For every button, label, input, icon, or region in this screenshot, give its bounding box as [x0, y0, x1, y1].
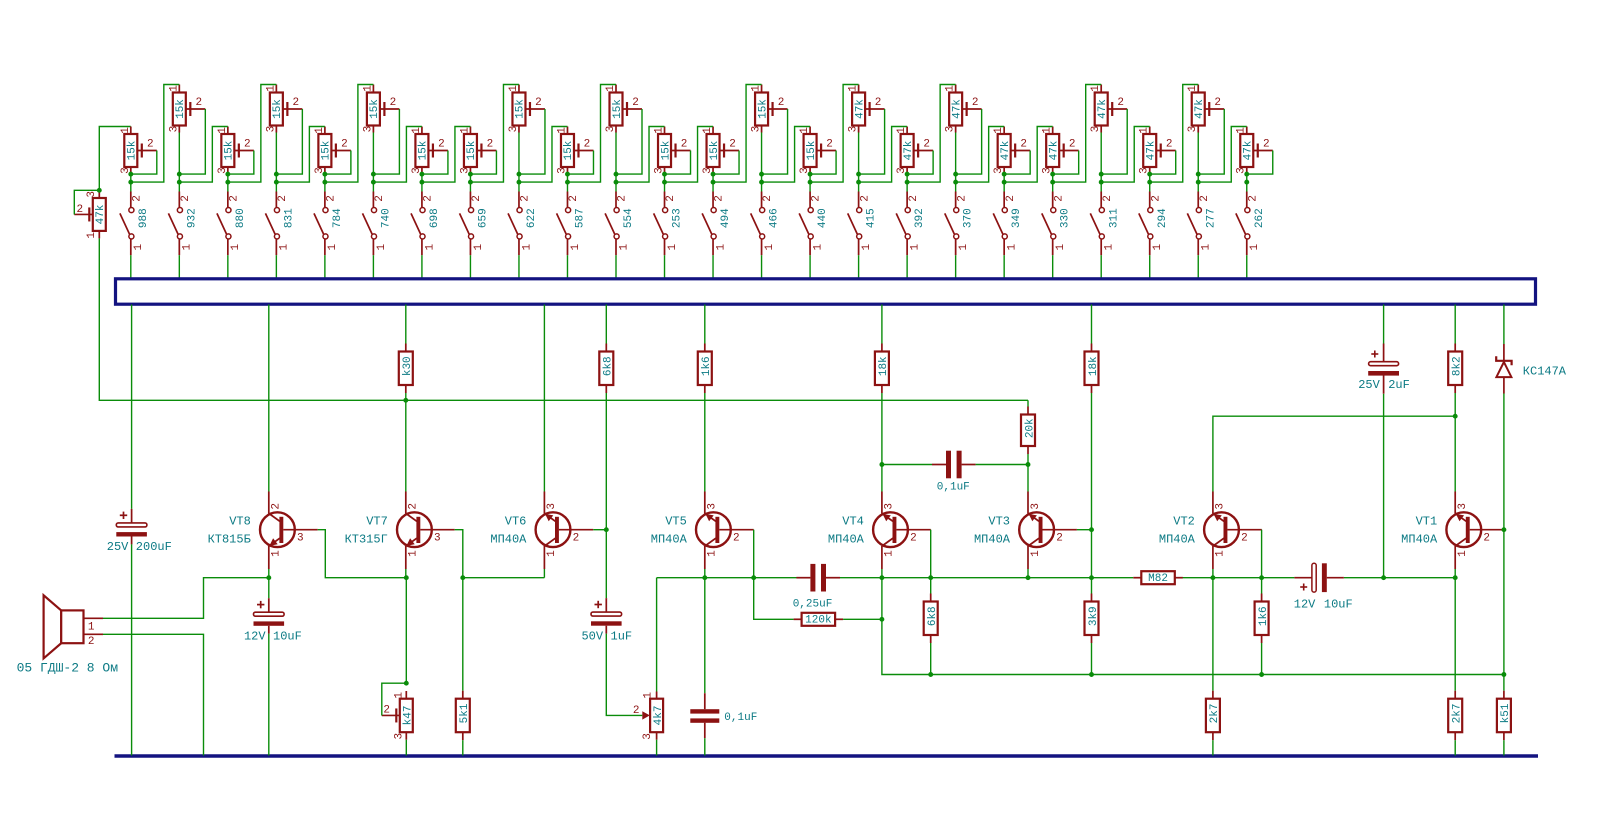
- trimmer resistor 15k (column 14, tone 466): [751, 85, 788, 133]
- svg-text:VT4: VT4: [842, 514, 864, 528]
- svg-text:15k: 15k: [418, 140, 430, 160]
- svg-text:1: 1: [133, 244, 145, 251]
- svg-text:VT1: VT1: [1416, 514, 1438, 528]
- wire: [615, 133, 617, 183]
- wire: [469, 174, 471, 182]
- junction: [1244, 180, 1249, 185]
- speaker 05 ГДШ-2 8 Ом: [17, 595, 119, 675]
- svg-text:311: 311: [1108, 208, 1120, 228]
- junction: [1453, 414, 1458, 419]
- wire: [1197, 255, 1199, 279]
- wire: [1454, 578, 1456, 691]
- junction: [322, 180, 327, 185]
- wire: [704, 305, 706, 344]
- wire: [227, 182, 229, 191]
- wire: [324, 174, 326, 182]
- capacitor 0,25uF: [796, 564, 840, 592]
- svg-text:1: 1: [556, 127, 568, 134]
- wire (chain link): [373, 127, 422, 183]
- wire: [1091, 305, 1093, 344]
- wire: [543, 569, 545, 578]
- wire (chain link): [1101, 127, 1150, 183]
- svg-text:VT8: VT8: [229, 514, 251, 528]
- wire (VT4 base down): [930, 530, 932, 578]
- svg-text:120k: 120k: [805, 615, 832, 627]
- junction: [1210, 575, 1215, 580]
- junction: [953, 172, 958, 177]
- svg-text:1: 1: [945, 85, 957, 92]
- junction: [371, 180, 376, 185]
- svg-text:1: 1: [702, 127, 714, 134]
- svg-text:2: 2: [147, 139, 154, 151]
- junction: [1089, 575, 1094, 580]
- junction: [460, 575, 465, 580]
- wire (wiper tie): [810, 151, 836, 175]
- wire: [405, 578, 407, 684]
- svg-text:15k: 15k: [806, 140, 818, 160]
- svg-text:2: 2: [1069, 139, 1076, 151]
- svg-text:12V: 12V: [244, 629, 266, 643]
- wire (chain link): [665, 127, 714, 183]
- transistor VT1 МП40А: [1401, 492, 1504, 570]
- junction: [1002, 172, 1007, 177]
- trimmer resistor 15k (column 7, tone 698): [411, 127, 448, 175]
- junction: [1050, 172, 1055, 177]
- wire (rail): [1182, 577, 1294, 579]
- junction: [662, 180, 667, 185]
- svg-text:47k: 47k: [1243, 140, 1255, 160]
- trimmer resistor 15k (column 12, tone 253): [653, 127, 690, 175]
- svg-text:1: 1: [715, 244, 727, 251]
- svg-text:1: 1: [861, 244, 873, 251]
- resistor 6k8: [599, 344, 614, 394]
- wire: [1149, 174, 1151, 182]
- svg-text:2: 2: [1150, 195, 1162, 202]
- switch 392 (column 17): [896, 192, 926, 256]
- trimmer resistor 15k (column 3, tone 880): [217, 127, 254, 175]
- wire: [605, 530, 607, 598]
- svg-text:47k: 47k: [1000, 140, 1012, 160]
- svg-text:1: 1: [848, 85, 860, 92]
- svg-text:2: 2: [826, 139, 833, 151]
- wire: [1212, 740, 1214, 755]
- svg-text:2: 2: [341, 139, 348, 151]
- svg-text:VT3: VT3: [988, 514, 1010, 528]
- wire: [268, 569, 270, 578]
- wire: [881, 305, 883, 344]
- wire: [275, 133, 277, 183]
- junction: [856, 172, 861, 177]
- zener diode КС147А: [1496, 344, 1567, 394]
- wire (chain link): [956, 127, 1005, 183]
- svg-text:1: 1: [1249, 244, 1261, 251]
- wire (chain link): [1198, 127, 1247, 183]
- svg-text:k51: k51: [1500, 703, 1512, 723]
- svg-text:2: 2: [487, 139, 494, 151]
- svg-text:2: 2: [632, 97, 639, 109]
- wire (chain link): [616, 127, 665, 183]
- svg-text:3: 3: [434, 533, 441, 545]
- svg-text:440: 440: [817, 208, 829, 228]
- junction: [1099, 172, 1104, 177]
- trimmer resistor 15k (column 15, tone 440): [799, 127, 836, 175]
- junction: [225, 172, 230, 177]
- wire (rail): [840, 577, 1133, 579]
- wire: [1246, 255, 1248, 279]
- svg-text:1: 1: [265, 85, 277, 92]
- switch 277 (column 23): [1187, 192, 1217, 256]
- junction: [905, 172, 910, 177]
- junction: [879, 462, 884, 467]
- svg-text:2: 2: [778, 97, 785, 109]
- switch 311 (column 21): [1090, 192, 1120, 256]
- wire: [664, 255, 666, 279]
- transistor VT3 МП40А: [974, 492, 1077, 570]
- wire: [761, 255, 763, 279]
- svg-text:784: 784: [332, 208, 344, 228]
- wire: [882, 464, 932, 466]
- wire (chain link): [907, 85, 956, 183]
- trimmer resistor 47k (column 22, tone 294): [1139, 127, 1176, 175]
- wire (chain link): [1004, 127, 1053, 183]
- svg-text:3: 3: [884, 503, 896, 510]
- svg-text:2: 2: [617, 195, 629, 202]
- svg-text:15k: 15k: [563, 140, 575, 160]
- junction: [225, 180, 230, 185]
- wire: [1027, 569, 1029, 578]
- resistor k30: [399, 344, 414, 394]
- wire: [469, 255, 471, 279]
- svg-text:2: 2: [584, 139, 591, 151]
- wire: [372, 182, 374, 191]
- switch 880 (column 3): [217, 192, 247, 256]
- wire: [1212, 569, 1214, 578]
- svg-text:2: 2: [1102, 195, 1114, 202]
- trimmer resistor 47k (column 17, tone 392): [896, 127, 933, 175]
- wire: [543, 305, 545, 492]
- svg-text:1: 1: [362, 85, 374, 92]
- resistor 120k: [794, 613, 844, 627]
- svg-text:3: 3: [546, 503, 558, 510]
- junction: [879, 617, 884, 622]
- svg-text:1: 1: [884, 550, 896, 557]
- svg-text:253: 253: [672, 208, 684, 228]
- transistor VT2 МП40А: [1159, 492, 1262, 570]
- wire (to column 1 pin1): [99, 127, 131, 191]
- wire (long feed to 20k): [99, 238, 1028, 400]
- switch 740 (column 6): [363, 192, 393, 256]
- junction: [614, 172, 619, 177]
- svg-text:3: 3: [605, 126, 617, 133]
- wire (chain link): [276, 127, 325, 183]
- trimmer resistor 15k (column 10, tone 587): [556, 127, 593, 175]
- svg-text:1: 1: [896, 127, 908, 134]
- svg-text:2: 2: [573, 533, 580, 545]
- svg-text:622: 622: [526, 208, 538, 228]
- wire: [268, 578, 270, 599]
- resistor M82: [1133, 571, 1183, 585]
- wire: [712, 174, 714, 182]
- wire: [227, 174, 229, 182]
- wire (k47 wiper tie): [382, 683, 407, 715]
- wire (wiper tie): [1247, 151, 1273, 175]
- wire: [605, 305, 607, 344]
- wire: [1027, 454, 1029, 465]
- wire: [372, 133, 374, 183]
- wire: [955, 133, 957, 183]
- wire (wiper tie): [179, 109, 205, 174]
- svg-text:1k6: 1k6: [1258, 606, 1270, 626]
- svg-text:10uF: 10uF: [273, 629, 302, 643]
- svg-text:1uF: 1uF: [611, 629, 633, 643]
- svg-text:VT7: VT7: [366, 514, 388, 528]
- wire: [1503, 305, 1505, 345]
- junction: [565, 180, 570, 185]
- trimmer resistor 15k (column 4, tone 831): [265, 85, 302, 133]
- wire: [1027, 400, 1029, 406]
- switch 330 (column 20): [1042, 192, 1072, 256]
- wire: [704, 578, 706, 694]
- wire (chain link): [422, 127, 471, 183]
- svg-text:2: 2: [1247, 195, 1259, 202]
- trimmer resistor 15k (column 11, tone 554): [605, 85, 642, 133]
- junction: [403, 398, 408, 403]
- wire: [1261, 578, 1263, 594]
- wire: [843, 618, 882, 620]
- wire: [881, 465, 883, 492]
- svg-text:2: 2: [1020, 139, 1027, 151]
- wire (to 4k7 wiper): [606, 634, 642, 716]
- wire: [275, 182, 277, 191]
- wire: [1503, 740, 1505, 755]
- svg-text:2: 2: [520, 195, 532, 202]
- wire: [664, 174, 666, 182]
- svg-text:1: 1: [508, 85, 520, 92]
- resistor 6k8: [924, 594, 939, 644]
- svg-text:1: 1: [120, 127, 132, 134]
- wire: [518, 182, 520, 191]
- svg-text:1: 1: [1090, 85, 1102, 92]
- wire (chain link): [131, 85, 180, 183]
- wire: [268, 305, 270, 492]
- svg-text:1: 1: [812, 244, 824, 251]
- svg-text:932: 932: [186, 208, 198, 228]
- wire: [930, 643, 932, 675]
- svg-text:1: 1: [799, 127, 811, 134]
- wire: [1091, 393, 1093, 578]
- wire: [1091, 643, 1093, 675]
- junction: [702, 575, 707, 580]
- junction: [468, 180, 473, 185]
- junction: [1099, 180, 1104, 185]
- svg-text:2: 2: [383, 705, 390, 717]
- switch 932 (column 2): [168, 192, 198, 256]
- svg-text:1: 1: [993, 127, 1005, 134]
- junction: [1259, 672, 1264, 677]
- svg-text:25V: 25V: [107, 540, 129, 554]
- junction: [1244, 172, 1249, 177]
- wire (to 120k): [754, 578, 794, 620]
- svg-text:47k: 47k: [1097, 99, 1109, 119]
- wire: [469, 182, 471, 191]
- wire (wiper tie): [276, 109, 302, 174]
- trimmer resistor 15k (column 6, tone 740): [362, 85, 399, 133]
- junction: [128, 172, 133, 177]
- trimmer resistor 4k7: [633, 692, 665, 740]
- wire: [858, 255, 860, 279]
- junction: [905, 180, 910, 185]
- svg-text:2: 2: [88, 636, 95, 648]
- svg-text:15k: 15k: [612, 99, 624, 119]
- wire: [1454, 416, 1456, 491]
- wire (wiper tie): [74, 190, 99, 214]
- wire: [761, 133, 763, 183]
- switch 494 (column 13): [702, 192, 732, 256]
- junction: [177, 180, 182, 185]
- wire: [906, 182, 908, 191]
- wire (VT2 collector rail): [1213, 416, 1455, 491]
- wire (wiper tie): [1004, 151, 1030, 175]
- wire: [704, 569, 706, 578]
- capacitor 50V 1uF: [581, 598, 632, 643]
- svg-text:3: 3: [1090, 126, 1102, 133]
- switch 253 (column 12): [654, 192, 684, 256]
- svg-text:12V: 12V: [1294, 597, 1316, 611]
- svg-text:6k8: 6k8: [603, 356, 615, 376]
- junction: [759, 172, 764, 177]
- svg-text:VT5: VT5: [665, 514, 687, 528]
- svg-text:1: 1: [1104, 244, 1116, 251]
- junction: [274, 172, 279, 177]
- svg-text:1: 1: [1187, 85, 1199, 92]
- svg-text:2: 2: [665, 195, 677, 202]
- wire (wiper tie): [907, 151, 933, 175]
- switch 440 (column 15): [799, 192, 829, 256]
- svg-text:277: 277: [1205, 208, 1217, 228]
- junction: [517, 180, 522, 185]
- wire (chain link): [470, 85, 519, 183]
- svg-text:1: 1: [618, 244, 630, 251]
- junction: [751, 575, 756, 580]
- svg-text:МП40А: МП40А: [1159, 532, 1196, 546]
- svg-text:2: 2: [1241, 533, 1248, 545]
- svg-text:3: 3: [945, 126, 957, 133]
- svg-text:47k: 47k: [1194, 99, 1206, 119]
- wire: [421, 255, 423, 279]
- wire: [1100, 182, 1102, 191]
- wire: [1149, 255, 1151, 279]
- wire (wiper tie): [665, 151, 691, 175]
- svg-text:2: 2: [535, 97, 542, 109]
- wire: [1503, 530, 1505, 675]
- wire: [704, 393, 706, 492]
- wire: [130, 174, 132, 182]
- svg-text:25V: 25V: [1358, 378, 1380, 392]
- wire: [809, 182, 811, 191]
- svg-text:6k8: 6k8: [927, 606, 939, 626]
- svg-text:18k: 18k: [1088, 356, 1100, 376]
- trimmer resistor 47k (column 18, tone 370): [945, 85, 982, 133]
- wire: [1383, 394, 1385, 578]
- switch 415 (column 16): [848, 192, 878, 256]
- wire: [1052, 182, 1054, 191]
- svg-text:15k: 15k: [466, 140, 478, 160]
- svg-text:698: 698: [429, 208, 441, 228]
- svg-text:15k: 15k: [757, 99, 769, 119]
- svg-text:1: 1: [1236, 127, 1248, 134]
- svg-text:2: 2: [908, 195, 920, 202]
- svg-text:554: 554: [623, 208, 635, 228]
- wire (VT4 emitter down): [882, 578, 931, 675]
- capacitor 12V 10uF: [244, 598, 302, 643]
- svg-text:1: 1: [667, 244, 679, 251]
- wire (wiper tie): [1150, 151, 1176, 175]
- svg-text:2: 2: [733, 533, 740, 545]
- svg-text:10uF: 10uF: [1324, 597, 1353, 611]
- wire: [324, 182, 326, 191]
- wire: [712, 255, 714, 279]
- svg-text:2: 2: [374, 195, 386, 202]
- capacitor 0,1uF (feedback): [932, 451, 976, 479]
- wire: [881, 569, 883, 578]
- junction: [808, 172, 813, 177]
- svg-text:2: 2: [196, 97, 203, 109]
- junction: [1147, 180, 1152, 185]
- svg-text:47k: 47k: [854, 99, 866, 119]
- svg-text:1: 1: [424, 244, 436, 251]
- wire: [1383, 305, 1385, 344]
- wire: [1003, 255, 1005, 279]
- svg-text:2uF: 2uF: [1388, 378, 1410, 392]
- svg-text:3: 3: [508, 126, 520, 133]
- svg-text:МП40А: МП40А: [828, 532, 865, 546]
- wire: [881, 393, 883, 465]
- resistor 2k7: [1206, 691, 1221, 741]
- wire (chain link): [859, 127, 908, 183]
- svg-text:1: 1: [314, 127, 326, 134]
- wire: [1246, 182, 1248, 191]
- svg-text:1: 1: [1201, 244, 1213, 251]
- wire (VT3 base to 18k): [1077, 529, 1092, 531]
- transistor VT7 КТ315Г: [345, 492, 455, 570]
- svg-text:3: 3: [642, 733, 654, 740]
- svg-text:1: 1: [653, 127, 665, 134]
- svg-text:1: 1: [1215, 550, 1227, 557]
- svg-text:1: 1: [1457, 550, 1469, 557]
- svg-text:415: 415: [866, 208, 878, 228]
- svg-text:1: 1: [271, 550, 283, 557]
- wire: [566, 255, 568, 279]
- wire: [955, 255, 957, 279]
- junction: [1050, 180, 1055, 185]
- junction: [97, 188, 102, 193]
- svg-text:392: 392: [914, 208, 926, 228]
- svg-text:2: 2: [1117, 97, 1124, 109]
- svg-text:988: 988: [138, 208, 150, 228]
- svg-text:2: 2: [972, 97, 979, 109]
- svg-text:1: 1: [521, 244, 533, 251]
- wire: [405, 305, 407, 344]
- junction: [322, 172, 327, 177]
- svg-text:1: 1: [230, 244, 242, 251]
- svg-text:1: 1: [909, 244, 921, 251]
- wire: [566, 182, 568, 191]
- wire: [1003, 182, 1005, 191]
- wire: [809, 255, 811, 279]
- wire: [405, 400, 407, 491]
- junction: [468, 172, 473, 177]
- svg-text:2k7: 2k7: [1451, 704, 1463, 724]
